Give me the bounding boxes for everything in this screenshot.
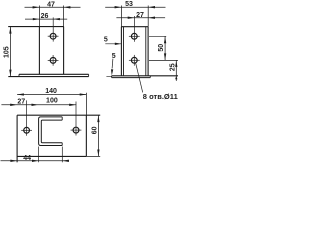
svg-text:26: 26 [41, 13, 49, 20]
svg-text:25: 25 [169, 63, 176, 71]
svg-text:53: 53 [125, 1, 133, 8]
svg-text:27: 27 [136, 12, 144, 19]
svg-text:100: 100 [46, 97, 58, 104]
svg-text:105: 105 [3, 46, 10, 58]
svg-text:5: 5 [112, 53, 116, 60]
svg-text:140: 140 [45, 88, 57, 95]
svg-text:27: 27 [17, 98, 25, 105]
svg-text:47: 47 [47, 1, 55, 8]
svg-text:50: 50 [158, 44, 165, 52]
svg-text:5: 5 [104, 37, 108, 44]
svg-text:44: 44 [23, 155, 31, 162]
svg-text:60: 60 [92, 126, 99, 134]
svg-text:8 отв.Ø11: 8 отв.Ø11 [143, 92, 178, 101]
